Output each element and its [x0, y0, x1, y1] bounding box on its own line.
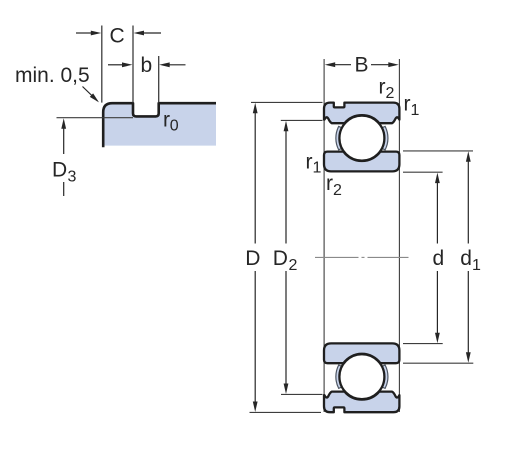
mirrored bottom section	[324, 343, 399, 412]
svg-text:1: 1	[411, 102, 420, 119]
cage cross-section left	[336, 126, 342, 149]
extension line: left face (C)	[101, 26, 103, 103]
cage cross-section right	[382, 126, 388, 149]
extension line: groove left	[132, 26, 134, 103]
dimension D3	[52, 118, 77, 196]
extension lines d1 (top & bottom)	[403, 150, 473, 152]
svg-text:0: 0	[170, 118, 179, 135]
extension line: groove right	[158, 56, 160, 103]
svg-text:b: b	[141, 54, 153, 77]
dimension d	[433, 173, 445, 344]
extension lines D2 (top & bottom)	[281, 119, 323, 121]
svg-text:1: 1	[313, 160, 322, 177]
svg-text:D: D	[52, 159, 67, 182]
label r1 (left middle)	[306, 150, 322, 176]
centerline	[315, 256, 409, 258]
dimension d1	[460, 151, 481, 362]
dimension B	[325, 54, 399, 77]
extension lines d (top & bottom)	[403, 171, 443, 173]
svg-text:2: 2	[386, 85, 395, 102]
ring section (blue) with groove	[103, 103, 216, 147]
ball	[339, 116, 384, 161]
dimension D2	[273, 121, 298, 394]
groove-bottom level line (D3)	[57, 117, 134, 119]
side face lines / B extension lines	[323, 59, 325, 412]
svg-text:2: 2	[289, 257, 298, 274]
svg-text:r: r	[326, 172, 333, 195]
svg-text:d: d	[460, 247, 472, 270]
svg-text:C: C	[110, 25, 125, 48]
outer ring (top)	[324, 103, 399, 124]
svg-text:D: D	[245, 247, 260, 270]
svg-text:min. 0,5: min. 0,5	[15, 64, 90, 87]
svg-text:r: r	[306, 150, 313, 173]
label r0	[163, 108, 179, 134]
svg-text:D: D	[273, 247, 288, 270]
inner ring (top)	[324, 152, 399, 172]
svg-text:3: 3	[68, 169, 77, 186]
svg-text:B: B	[355, 54, 369, 77]
svg-text:2: 2	[333, 182, 342, 199]
label r1 (top right)	[404, 93, 420, 119]
label r2 (top)	[379, 76, 395, 103]
label r2 (left lower)	[326, 172, 342, 199]
svg-text:r: r	[379, 76, 386, 99]
svg-text:r: r	[404, 93, 411, 116]
extension lines D (top & bottom)	[251, 101, 323, 103]
dimension C	[76, 25, 161, 48]
svg-text:d: d	[433, 247, 445, 270]
dimension D	[245, 103, 260, 412]
svg-text:1: 1	[472, 257, 481, 274]
dimension b	[108, 54, 186, 77]
label min. 0,5 with leader arrow	[15, 64, 101, 104]
